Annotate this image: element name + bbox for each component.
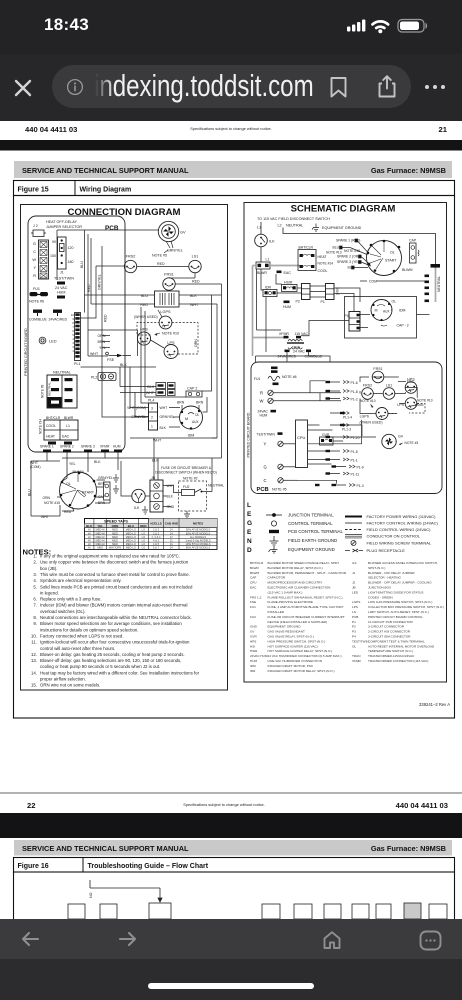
svg-text:TRAN: TRAN bbox=[352, 654, 360, 658]
wire bundle PCB verticals bbox=[57, 230, 158, 417]
figure 16 title row bbox=[14, 858, 455, 873]
speed taps table bbox=[85, 519, 218, 550]
share icon bbox=[375, 74, 399, 100]
svg-text:TEMPERATURE SWITCH (N.C.): TEMPERATURE SWITCH (N.C.) bbox=[368, 649, 413, 653]
back arrow bbox=[21, 931, 40, 947]
svg-text:R: R bbox=[33, 274, 36, 278]
inducer motor IDM bbox=[177, 401, 204, 438]
svg-text:2: 2 bbox=[72, 345, 74, 349]
spare terminals row bbox=[40, 445, 121, 449]
limit switch LS1 bbox=[189, 255, 201, 273]
EAC terminal bbox=[277, 271, 292, 276]
wire FRS2 to LS1 bbox=[137, 262, 189, 267]
svg-text:LO: LO bbox=[142, 539, 145, 543]
wires P2-P1 igniter bbox=[277, 286, 326, 297]
svg-text:GRN/YEL: GRN/YEL bbox=[167, 249, 183, 253]
COM/BLUE terminal bbox=[29, 310, 47, 322]
jumper J2 bbox=[31, 224, 46, 237]
svg-text:Heat tap may be factory wired: Heat tap may be factory wired with a dif… bbox=[40, 670, 200, 675]
svg-text:4.: 4. bbox=[33, 578, 37, 583]
svg-text:LO: LO bbox=[142, 542, 145, 546]
svg-text:P1: P1 bbox=[352, 620, 356, 624]
svg-text:1: 1 bbox=[72, 349, 74, 353]
page 21 footer strip bbox=[25, 125, 448, 134]
svg-text:This wire must be connected to: This wire must be connected to furnace s… bbox=[40, 572, 190, 577]
wire color labels vertical bbox=[80, 261, 108, 322]
page 22 footer strip bbox=[0, 793, 462, 810]
svg-text:RED: RED bbox=[192, 280, 200, 284]
svg-text:proper airflow selection.: proper airflow selection. bbox=[40, 677, 86, 682]
info icon bbox=[66, 78, 84, 96]
relay BHT/CLR heat-cool bbox=[298, 246, 342, 274]
svg-text:PRINTED CIRCUIT BOARD CONTROL: PRINTED CIRCUIT BOARD CONTROL bbox=[368, 615, 423, 619]
home icon bbox=[322, 930, 342, 951]
svg-text:GV: GV bbox=[250, 630, 255, 634]
svg-text:COM/BLUE: COM/BLUE bbox=[305, 355, 323, 359]
svg-text:NOTE #15: NOTE #15 bbox=[44, 501, 60, 505]
svg-text:L1: L1 bbox=[266, 258, 270, 262]
svg-text:IDR: IDR bbox=[250, 669, 256, 673]
svg-text:3-CIRCUIT IDM CONNECTOR: 3-CIRCUIT IDM CONNECTOR bbox=[368, 635, 411, 639]
svg-text:5: 5 bbox=[72, 333, 74, 337]
svg-text:WHT/ORN: WHT/ORN bbox=[109, 546, 122, 550]
blower motor BLWM bbox=[60, 470, 97, 509]
FSE label schematic bbox=[398, 380, 414, 384]
svg-text:10.: 10. bbox=[31, 633, 37, 638]
svg-text:Solid lines inside PCB are pri: Solid lines inside PCB are printed circu… bbox=[40, 584, 193, 589]
svg-text:HEAT: HEAT bbox=[318, 255, 328, 259]
pressure switch LPS bbox=[164, 341, 178, 359]
svg-text:(115 VAC 1.0 AMP MAX.): (115 VAC 1.0 AMP MAX.) bbox=[268, 590, 303, 594]
svg-text:Ignition-lockout will occur af: Ignition-lockout will occur after four c… bbox=[40, 640, 190, 645]
svg-text:10: 10 bbox=[71, 313, 74, 317]
svg-text:339241–2 Rev A: 339241–2 Rev A bbox=[419, 702, 450, 707]
labels below PCB bbox=[30, 460, 101, 469]
svg-text:LO: LO bbox=[142, 528, 145, 532]
svg-text:PCB: PCB bbox=[257, 487, 269, 493]
svg-text:HI: HI bbox=[88, 542, 91, 546]
svg-text:MED: MED bbox=[112, 539, 118, 543]
svg-text:CONDUCTOR ON CONTROL: CONDUCTOR ON CONTROL bbox=[367, 534, 421, 539]
svg-text:PL2: PL2 bbox=[91, 376, 97, 380]
svg-text:SPARE 1: SPARE 1 bbox=[40, 445, 54, 449]
svg-text:CAB WID: CAB WID bbox=[165, 522, 179, 526]
svg-text:FSE: FSE bbox=[407, 380, 414, 384]
svg-text:P3: P3 bbox=[352, 630, 356, 634]
test/twin terminal bbox=[54, 277, 74, 285]
svg-text:RED: RED bbox=[64, 510, 72, 514]
svg-text:XFMR: XFMR bbox=[279, 332, 289, 336]
connector thermostat G C W Y R bbox=[32, 240, 48, 279]
svg-text:BHT/CLR: BHT/CLR bbox=[250, 561, 264, 565]
svg-text:NEUTRAL: NEUTRAL bbox=[437, 276, 441, 292]
wires mid schematic bbox=[256, 269, 430, 362]
svg-text:(WHEN USED): (WHEN USED) bbox=[360, 421, 383, 425]
forward arrow bbox=[118, 931, 137, 947]
left panel box bbox=[21, 205, 228, 691]
schematic control wires bbox=[297, 377, 424, 484]
svg-text:J2: J2 bbox=[352, 581, 356, 585]
svg-text:CODES - GREEN: CODES - GREEN bbox=[368, 595, 393, 599]
svg-text:START: START bbox=[385, 259, 397, 263]
BLWM wires bbox=[31, 453, 118, 517]
svg-text:OL: OL bbox=[195, 413, 199, 417]
svg-text:WHT: WHT bbox=[190, 303, 199, 307]
wire L1 drop bbox=[261, 222, 436, 264]
svg-text:COOL: COOL bbox=[318, 269, 328, 273]
svg-text:XFMR: XFMR bbox=[352, 659, 362, 663]
svg-text:N: N bbox=[247, 538, 252, 545]
COM wire bbox=[360, 280, 425, 284]
svg-text:440 04 4411 03: 440 04 4411 03 bbox=[396, 801, 448, 810]
svg-text:NEUTRAL: NEUTRAL bbox=[53, 371, 71, 375]
spare wire labels bbox=[333, 239, 362, 270]
svg-text:MED: MED bbox=[112, 531, 118, 535]
svg-text:TRAN: TRAN bbox=[292, 345, 300, 349]
svg-text:HEAT: HEAT bbox=[46, 435, 56, 439]
tabs icon bbox=[419, 930, 442, 951]
svg-text:(COM): (COM) bbox=[30, 465, 41, 469]
equipment ground symbol bbox=[312, 224, 319, 232]
svg-text:HI: HI bbox=[88, 535, 91, 539]
24 VAC HUM terminal bbox=[55, 286, 68, 299]
svg-text:LO: LO bbox=[142, 546, 145, 550]
svg-text:LGPS: LGPS bbox=[352, 600, 360, 604]
svg-text:M: M bbox=[185, 417, 188, 421]
close X bbox=[13, 78, 33, 98]
svg-text:MED: MED bbox=[112, 542, 118, 546]
svg-text:YEL: YEL bbox=[69, 462, 76, 466]
svg-text:PCB: PCB bbox=[352, 615, 358, 619]
svg-text:P4: P4 bbox=[352, 635, 356, 639]
svg-text:HOT SURFACE IGNITER RELAY, SPS: HOT SURFACE IGNITER RELAY, SPST-(N.O.) bbox=[268, 649, 333, 653]
svg-text:LOW GAS PRESSURE SWITCH, SPST-: LOW GAS PRESSURE SWITCH, SPST-(N.O.) bbox=[368, 600, 432, 604]
svg-text:E: E bbox=[247, 511, 252, 518]
svg-text:P1-11: P1-11 bbox=[351, 473, 360, 477]
fuse FU1 schematic bbox=[254, 375, 297, 385]
svg-text:SERVICE AND TECHNICAL SUPPORT: SERVICE AND TECHNICAL SUPPORT MANUAL bbox=[22, 844, 189, 853]
svg-text:BRN: BRN bbox=[196, 401, 204, 405]
svg-text:Figure 16: Figure 16 bbox=[18, 863, 49, 870]
svg-text:MED-HI: MED-HI bbox=[96, 535, 106, 539]
svg-text:INSTALLED: INSTALLED bbox=[268, 610, 285, 614]
svg-text:14.: 14. bbox=[31, 670, 37, 675]
svg-text:SPST-(N.O.): SPST-(N.O.) bbox=[368, 566, 385, 570]
C terminal bbox=[264, 478, 298, 483]
svg-text:DISCONNECT SWITCH (WHEN REQ'D): DISCONNECT SWITCH (WHEN REQ'D) bbox=[155, 471, 217, 475]
svg-text:NOTE #6: NOTE #6 bbox=[282, 375, 297, 379]
svg-text:(WHEN USED): (WHEN USED) bbox=[134, 315, 158, 319]
svg-text:FACTORY CONTROL WIRING (24VAC): FACTORY CONTROL WIRING (24VAC) bbox=[367, 521, 439, 526]
pressure switch HPS bbox=[137, 328, 150, 346]
relay HSIR bbox=[282, 281, 298, 292]
svg-text:RED: RED bbox=[87, 284, 91, 292]
svg-text:FRS1: FRS1 bbox=[164, 273, 174, 277]
svg-text:GV: GV bbox=[398, 435, 404, 439]
disconnect switch note bbox=[155, 466, 217, 475]
wire bundle schematic left verticals bbox=[257, 269, 282, 352]
G terminal bbox=[264, 464, 296, 469]
figure 15 title row bbox=[14, 181, 455, 196]
svg-text:FRS2: FRS2 bbox=[363, 384, 372, 388]
svg-text:MED-HI: MED-HI bbox=[96, 531, 106, 535]
svg-text:BRN: BRN bbox=[98, 482, 106, 486]
switch HPS schematic bbox=[405, 378, 417, 394]
svg-text:TRANSFORMER-115VAC/24VAC: TRANSFORMER-115VAC/24VAC bbox=[368, 654, 415, 658]
svg-text:box (JB).: box (JB). bbox=[40, 566, 57, 571]
wire FRS1 to edge bbox=[169, 273, 222, 458]
svg-text:NOTE #14: NOTE #14 bbox=[39, 419, 43, 434]
svg-text:BLK: BLK bbox=[94, 460, 101, 464]
svg-text:OL: OL bbox=[390, 251, 395, 255]
note #5 label bbox=[152, 250, 168, 258]
svg-text:Inducer (IDM) and blower (BLWM: Inducer (IDM) and blower (BLWM) motors c… bbox=[40, 603, 187, 608]
svg-text:COMPONENT TEST & TWIN TERMINAL: COMPONENT TEST & TWIN TERMINAL bbox=[368, 639, 425, 643]
svg-text:EAC: EAC bbox=[62, 435, 70, 439]
svg-text:IDM: IDM bbox=[188, 434, 195, 438]
svg-text:FRS1: FRS1 bbox=[373, 367, 382, 371]
dashed field wiring bbox=[137, 323, 198, 355]
svg-text:MED-HI: MED-HI bbox=[96, 528, 106, 532]
svg-text:Blower motor speed selections: Blower motor speed selections are for av… bbox=[40, 621, 182, 626]
svg-text:11.: 11. bbox=[31, 640, 37, 645]
svg-text:SPEED TAPS: SPEED TAPS bbox=[104, 520, 128, 524]
svg-text:FU1: FU1 bbox=[250, 605, 256, 609]
svg-text:WHT: WHT bbox=[146, 391, 155, 395]
svg-text:4: 4 bbox=[72, 337, 74, 341]
svg-text:G: G bbox=[264, 465, 267, 470]
svg-text:12.: 12. bbox=[31, 652, 37, 657]
svg-text:80% AFUE MODELS: 80% AFUE MODELS bbox=[186, 531, 211, 535]
svg-text:CAP: CAP bbox=[250, 576, 256, 580]
svg-text:LGPS: LGPS bbox=[160, 310, 171, 314]
svg-text:HI: HI bbox=[88, 546, 91, 550]
svg-text:FU1: FU1 bbox=[33, 287, 40, 291]
svg-text:PL1-4: PL1-4 bbox=[343, 416, 352, 420]
svg-text:GAS VALVE-REDUNDANT: GAS VALVE-REDUNDANT bbox=[268, 630, 305, 634]
svg-text:PLUG RECEPTACLE: PLUG RECEPTACLE bbox=[367, 548, 406, 553]
svg-text:MED: MED bbox=[97, 546, 103, 550]
svg-text:COM: COM bbox=[369, 280, 377, 284]
right panel box bbox=[244, 203, 447, 683]
svg-text:CONTROL TERMINAL: CONTROL TERMINAL bbox=[288, 521, 333, 526]
svg-text:1-and-2-Stg MODELS: 1-and-2-Stg MODELS bbox=[185, 539, 211, 543]
svg-text:TO 115 VAC FIELD DISCONNECT SW: TO 115 VAC FIELD DISCONNECT SWITCH bbox=[257, 217, 330, 221]
svg-text:AUX: AUX bbox=[192, 420, 199, 424]
svg-text:WHT: WHT bbox=[160, 406, 168, 410]
svg-text:HSIR: HSIR bbox=[284, 281, 293, 285]
svg-text:BLWR: BLWR bbox=[250, 566, 259, 570]
PCB control board outline (schematic) bbox=[251, 362, 442, 494]
wires to PL3 bbox=[120, 367, 156, 393]
svg-text:ORN: ORN bbox=[42, 496, 50, 500]
wire WHT bottom bbox=[130, 430, 217, 443]
wire ILK to L1 terminal bbox=[260, 247, 262, 262]
svg-text:FSE: FSE bbox=[107, 358, 115, 362]
svg-text:#CELLS: #CELLS bbox=[150, 522, 162, 526]
svg-text:W: W bbox=[260, 399, 264, 404]
interlock switch ILK bbox=[255, 234, 275, 247]
svg-text:R: R bbox=[260, 391, 263, 396]
page separator band bbox=[0, 140, 462, 151]
svg-text:NEUTRAL: NEUTRAL bbox=[286, 224, 303, 228]
svg-text:SPARE 3: SPARE 3 bbox=[81, 445, 95, 449]
svg-text:BLU: BLU bbox=[141, 294, 148, 298]
svg-text:SCHEMATIC DIAGRAM: SCHEMATIC DIAGRAM bbox=[291, 204, 396, 215]
svg-text:GVR: GVR bbox=[250, 635, 257, 639]
svg-text:6: 6 bbox=[72, 329, 74, 333]
svg-text:ORN: ORN bbox=[112, 524, 119, 528]
switch LPS schematic bbox=[397, 398, 417, 410]
svg-text:FLAME-PROVING ELECTRODE: FLAME-PROVING ELECTRODE bbox=[268, 600, 313, 604]
wire BLK upper bbox=[81, 363, 157, 367]
notes list bbox=[31, 554, 200, 688]
svg-text:SELECTOR - HEATING: SELECTOR - HEATING bbox=[368, 576, 401, 580]
wires HPS LPS bbox=[88, 330, 164, 356]
svg-text:FRS 1,2: FRS 1,2 bbox=[250, 595, 262, 599]
svg-text:PL4: PL4 bbox=[148, 399, 154, 403]
plug receptacles P1-x bbox=[315, 381, 355, 487]
svg-text:BLOWER MOTOR, PERMANENT - SPLI: BLOWER MOTOR, PERMANENT - SPLIT - CAPACI… bbox=[268, 571, 347, 575]
svg-text:GND: GND bbox=[250, 625, 258, 629]
svg-text:BLK: BLK bbox=[120, 363, 127, 367]
svg-text:MED-LO: MED-LO bbox=[126, 535, 136, 539]
svg-text:INDUCED DRAFT MOTOR, PSC: INDUCED DRAFT MOTOR, PSC bbox=[268, 664, 314, 668]
svg-text:HI: HI bbox=[88, 531, 91, 535]
svg-text:3.: 3. bbox=[33, 572, 37, 577]
svg-text:CAP: CAP bbox=[409, 239, 417, 243]
svg-text:PRINTED CIRCUIT BOARD: PRINTED CIRCUIT BOARD bbox=[247, 412, 251, 457]
svg-text:JB: JB bbox=[151, 476, 156, 480]
svg-text:LGPS: LGPS bbox=[360, 415, 370, 419]
svg-text:MED-LO: MED-LO bbox=[126, 528, 136, 532]
svg-text:MED: MED bbox=[112, 528, 118, 532]
svg-text:BLK: BLK bbox=[167, 495, 174, 499]
svg-text:in legend.: in legend. bbox=[40, 590, 59, 595]
transformer TRAN bbox=[278, 332, 323, 359]
svg-text:6.: 6. bbox=[33, 597, 37, 602]
flowchart fragment bbox=[68, 880, 447, 919]
overflow dots bbox=[423, 82, 447, 92]
svg-text:2, 3 & 4: 2, 3 & 4 bbox=[152, 535, 161, 539]
svg-text:FSE: FSE bbox=[250, 600, 256, 604]
svg-text:Gas Furnace: N9MSB: Gas Furnace: N9MSB bbox=[371, 166, 446, 175]
svg-text:NEUTRAL: NEUTRAL bbox=[48, 382, 52, 396]
gas valve GV bbox=[158, 221, 186, 252]
svg-text:C: C bbox=[33, 250, 36, 254]
svg-text:EQUIPMENT GROUND: EQUIPMENT GROUND bbox=[268, 625, 302, 629]
svg-text:Blower-on delay: gas heating 2: Blower-on delay: gas heating 25 seconds,… bbox=[40, 652, 185, 657]
svg-text:90: 90 bbox=[52, 240, 56, 244]
svg-text:MED-LO: MED-LO bbox=[126, 539, 136, 543]
svg-text:BLOWER MOTOR SPEED CHANGE RELA: BLOWER MOTOR SPEED CHANGE RELAY, SPDT bbox=[268, 561, 340, 565]
svg-text:PCB CONTROL TERMINAL: PCB CONTROL TERMINAL bbox=[288, 529, 343, 534]
svg-text:IDM: IDM bbox=[399, 309, 406, 313]
FSE electrode bbox=[107, 354, 131, 362]
svg-text:P1-10: P1-10 bbox=[351, 436, 360, 440]
svg-text:MED: MED bbox=[112, 535, 118, 539]
svg-text:E: E bbox=[247, 529, 252, 536]
svg-text:BLK: BLK bbox=[86, 524, 93, 528]
P1 pin labels bbox=[342, 381, 364, 488]
gas valve GV schematic bbox=[382, 434, 419, 448]
svg-text:NOTE #10: NOTE #10 bbox=[417, 399, 433, 403]
svg-text:AUTO-RESET INTERNAL MOTOR OVER: AUTO-RESET INTERNAL MOTOR OVERLOAD bbox=[368, 644, 435, 648]
svg-text:2: 2 bbox=[151, 416, 153, 420]
svg-text:C: C bbox=[264, 478, 267, 483]
svg-text:P1-1: P1-1 bbox=[351, 459, 358, 463]
svg-text:Troubleshooting Guide – Flow C: Troubleshooting Guide – Flow Chart bbox=[88, 863, 209, 870]
svg-text:Gas Furnace: N9MSB: Gas Furnace: N9MSB bbox=[371, 844, 446, 853]
svg-text:CPU: CPU bbox=[297, 435, 306, 440]
svg-text:2.: 2. bbox=[33, 560, 37, 565]
svg-text:ORN: ORN bbox=[98, 334, 106, 338]
svg-text:P1: P1 bbox=[321, 300, 325, 304]
svg-text:EQUIPMENT GROUND: EQUIPMENT GROUND bbox=[288, 547, 335, 552]
svg-text:Neutral connections are interc: Neutral connections are interchangeable … bbox=[40, 615, 192, 620]
svg-text:control will auto-reset after: control will auto-reset after three hour… bbox=[40, 646, 115, 651]
heat off-delay jumper selector label bbox=[46, 220, 82, 229]
W terminal bbox=[260, 398, 342, 403]
svg-text:MED-LO: MED-LO bbox=[126, 546, 136, 550]
svg-text:YEL: YEL bbox=[97, 524, 103, 528]
svg-text:BRN: BRN bbox=[98, 340, 106, 344]
svg-text:LS1: LS1 bbox=[192, 255, 199, 259]
svg-text:P1-3: P1-3 bbox=[357, 484, 364, 488]
svg-text:CPU: CPU bbox=[250, 581, 257, 585]
svg-text:PCB: PCB bbox=[105, 225, 119, 232]
svg-text:NOTE #14: NOTE #14 bbox=[318, 262, 334, 266]
R terminal bbox=[260, 390, 341, 395]
svg-text:15.: 15. bbox=[31, 683, 37, 688]
gray power bus bbox=[253, 266, 436, 357]
NEUTRAL connector block bbox=[47, 371, 77, 409]
relay contact L1/BLWR bbox=[256, 258, 270, 276]
rollout switch FRS2 bbox=[124, 255, 136, 273]
svg-text:90% AFUE MODELS: 90% AFUE MODELS bbox=[186, 528, 211, 532]
svg-text:ORN wire not on some models.: ORN wire not on some models. bbox=[40, 683, 100, 688]
svg-text:Specifications subject to cha: Specifications subject to change without… bbox=[183, 802, 265, 807]
svg-text:180: 180 bbox=[68, 260, 74, 264]
svg-text:135k BTUH MODELS: 135k BTUH MODELS bbox=[185, 542, 210, 546]
svg-text:JB: JB bbox=[352, 586, 356, 590]
svg-text:COOL: COOL bbox=[46, 424, 56, 428]
svg-text:D: D bbox=[247, 547, 252, 554]
PL1 wire labels bbox=[90, 334, 106, 356]
svg-text:BLK: BLK bbox=[160, 426, 167, 430]
connector PL4 bbox=[127, 399, 174, 431]
svg-text:P4: P4 bbox=[345, 314, 349, 318]
svg-text:120: 120 bbox=[68, 246, 74, 250]
svg-text:3-CIRCUIT CONNECTOR: 3-CIRCUIT CONNECTOR bbox=[368, 625, 405, 629]
svg-text:BLOWER - OFF DELAY JUMPER: BLOWER - OFF DELAY JUMPER bbox=[368, 571, 415, 575]
svg-text:XFMR: XFMR bbox=[100, 445, 110, 449]
svg-text:HI: HI bbox=[88, 528, 91, 532]
svg-text:LO: LO bbox=[142, 535, 145, 539]
svg-text:EAC: EAC bbox=[250, 586, 257, 590]
wire bundle transformer drop bbox=[138, 295, 212, 412]
svg-text:PL1-3: PL1-3 bbox=[342, 428, 351, 432]
equipment ground marks bbox=[113, 474, 119, 493]
connector P4 bbox=[345, 312, 361, 332]
svg-text:LO: LO bbox=[142, 531, 145, 535]
svg-text:LS: LS bbox=[352, 610, 356, 614]
svg-text:W: W bbox=[32, 258, 36, 262]
switch FRS2 schematic bbox=[362, 384, 374, 400]
svg-text:GAS VALVE RELAY, SPST-(N.O.): GAS VALVE RELAY, SPST-(N.O.) bbox=[268, 635, 314, 639]
svg-text:SERVICE AND TECHNICAL SUPPORT: SERVICE AND TECHNICAL SUPPORT MANUAL bbox=[22, 166, 189, 175]
plug PL2 bbox=[91, 373, 116, 381]
